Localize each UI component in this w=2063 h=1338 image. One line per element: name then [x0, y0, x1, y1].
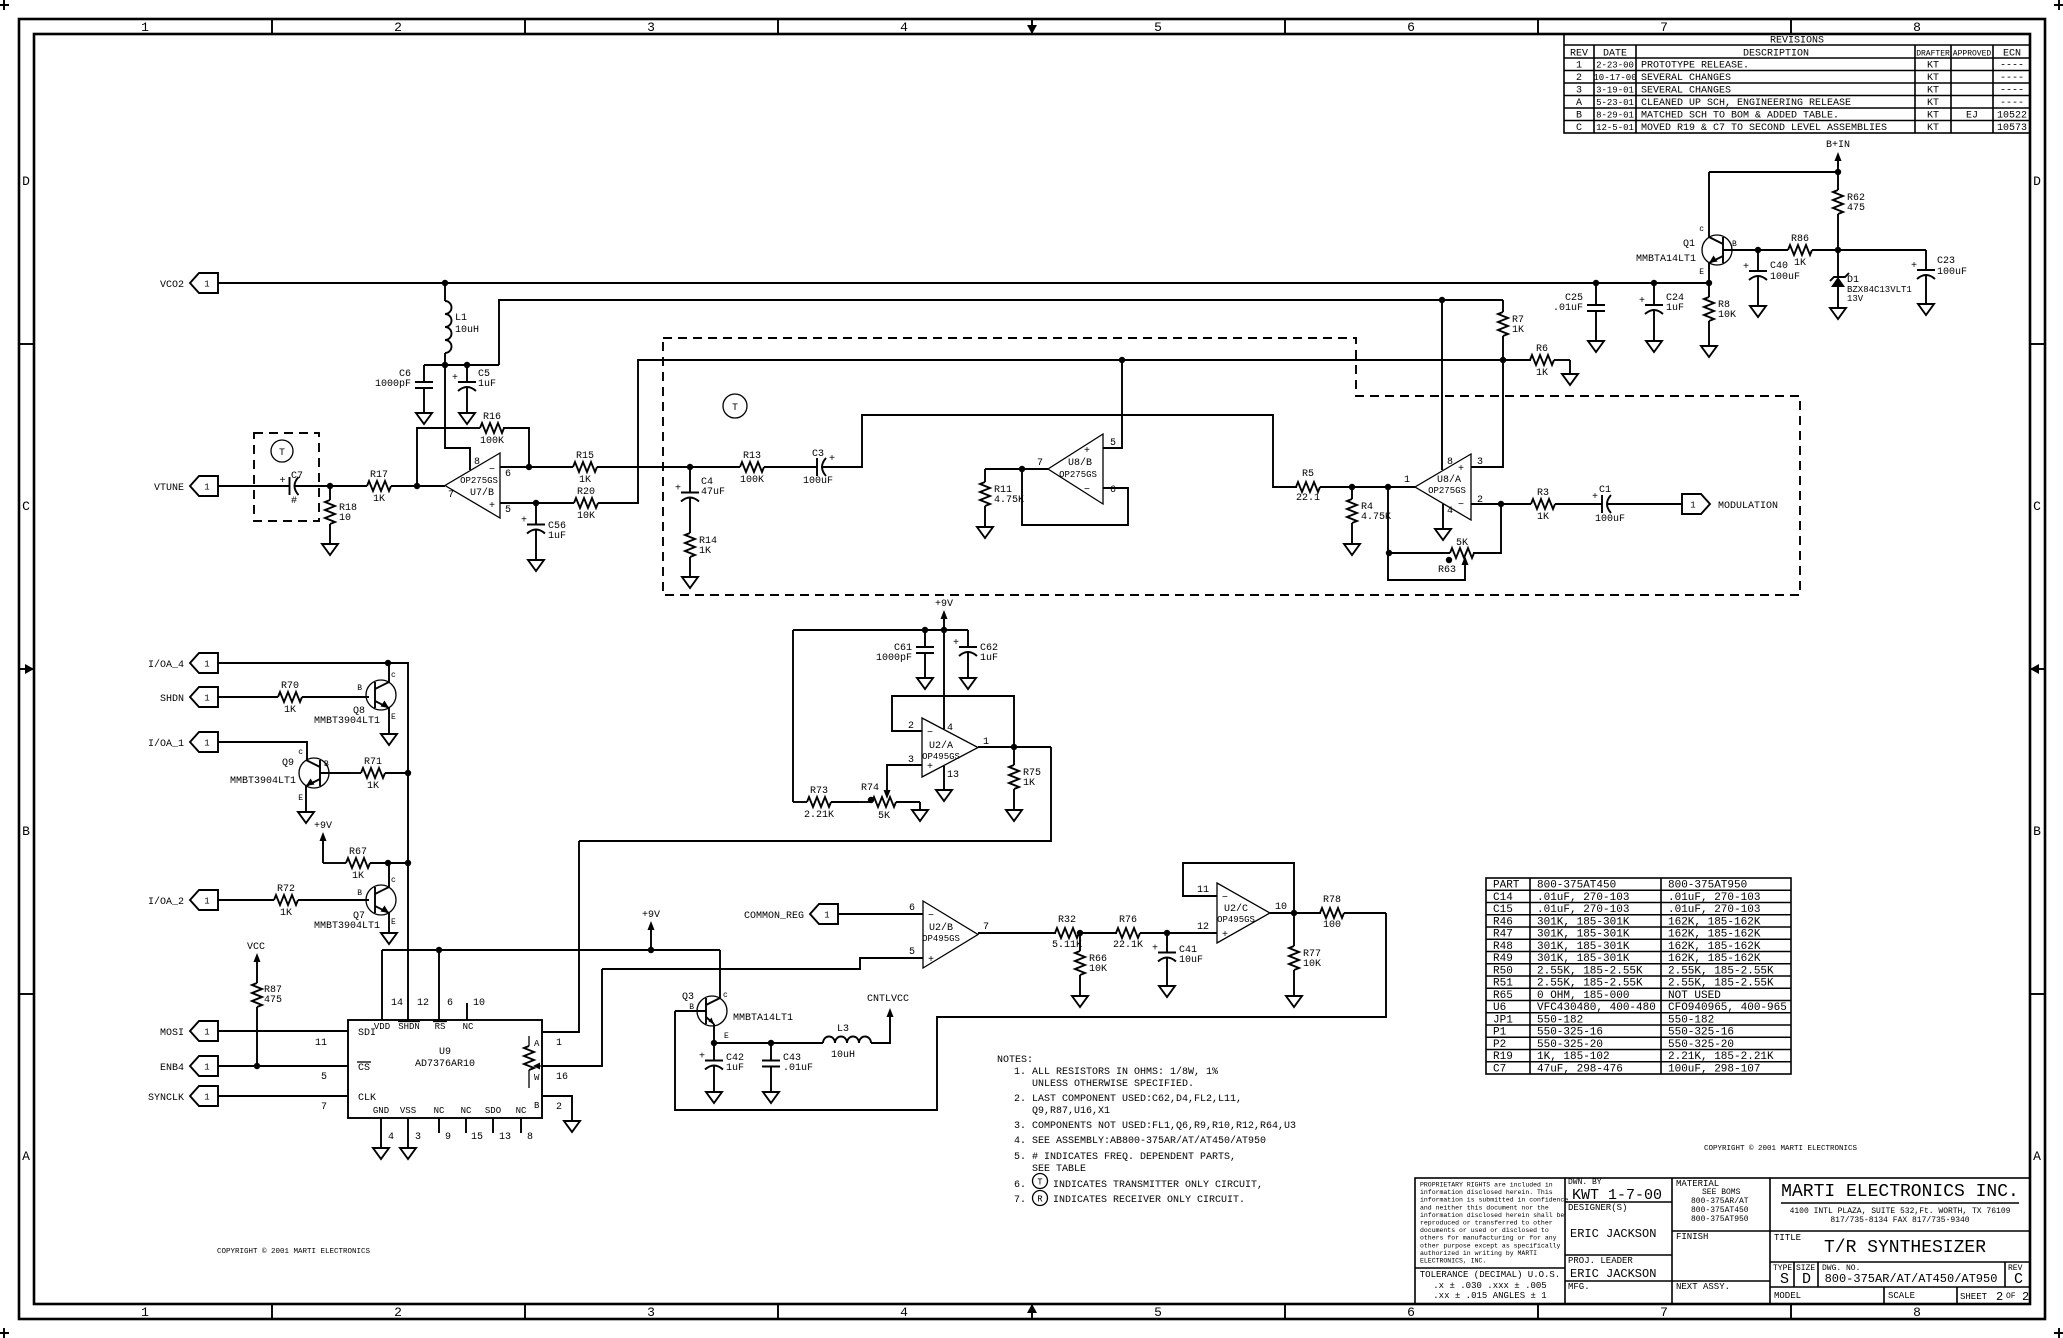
wire Q3 base	[675, 1010, 706, 1012]
svg-text:1: 1	[204, 1063, 209, 1073]
svg-text:GND: GND	[373, 1106, 389, 1116]
svg-text:10K: 10K	[577, 511, 595, 522]
svg-text:6: 6	[447, 998, 453, 1009]
wire U8B pin5	[1103, 360, 1122, 448]
svg-text:2: 2	[394, 20, 402, 35]
svg-text:1uF: 1uF	[478, 379, 496, 390]
resistor R14	[689, 524, 691, 533]
U9 pin1 A wire	[542, 841, 579, 1032]
wire U2A pin2 feedback	[892, 696, 1014, 747]
svg-text:SEVERAL CHANGES: SEVERAL CHANGES	[1641, 73, 1731, 84]
wire R63 wiper loop	[1388, 553, 1465, 580]
wire U2B output	[978, 932, 1056, 934]
svg-text:JP1: JP1	[1493, 1014, 1513, 1026]
svg-text:+: +	[829, 454, 835, 465]
svg-text:+9V: +9V	[642, 910, 660, 921]
svg-text:R51: R51	[1493, 978, 1513, 990]
svg-text:47uF, 298-476: 47uF, 298-476	[1537, 1063, 1623, 1075]
svg-text:1K: 1K	[352, 871, 364, 882]
node R86 right	[1835, 247, 1841, 253]
node C42	[711, 1040, 717, 1046]
svg-text:.01uF, 270-103: .01uF, 270-103	[1668, 904, 1760, 916]
svg-text:D: D	[22, 174, 30, 189]
svg-text:+: +	[699, 1052, 705, 1063]
node C43	[768, 1040, 774, 1046]
svg-text:1uF: 1uF	[548, 531, 566, 542]
svg-text:1: 1	[1576, 61, 1582, 72]
svg-text:R19: R19	[1493, 1051, 1513, 1063]
wire U7B pin6 line	[500, 466, 529, 468]
resistor R18	[329, 486, 331, 500]
svg-text:R5: R5	[1302, 469, 1314, 480]
node R18	[327, 483, 333, 489]
svg-text:MOVED R19 & C7 TO SECOND LEVEL: MOVED R19 & C7 TO SECOND LEVEL ASSEMBLIE…	[1641, 123, 1887, 134]
svg-text:1.: 1.	[1014, 1067, 1026, 1078]
op-amp U8/B	[1048, 434, 1103, 504]
svg-text:+: +	[1084, 446, 1090, 457]
wire U2A output	[978, 746, 1051, 748]
svg-text:B: B	[324, 760, 329, 769]
svg-text:other purpose except as specif: other purpose except as specifically	[1420, 1242, 1561, 1249]
svg-text:D: D	[2033, 174, 2041, 189]
wire Q8 collector	[388, 663, 390, 682]
resistor R71	[350, 772, 361, 774]
svg-text:+: +	[1911, 261, 1917, 272]
svg-text:5: 5	[909, 947, 915, 958]
ground D1	[1830, 300, 1846, 319]
svg-text:REVISIONS: REVISIONS	[1770, 36, 1824, 47]
transistor Q1	[1702, 235, 1732, 265]
svg-text:1: 1	[1404, 475, 1410, 486]
svg-text:12: 12	[417, 998, 429, 1009]
svg-text:PROPRIETARY RIGHTS are include: PROPRIETARY RIGHTS are included in	[1420, 1182, 1553, 1189]
svg-text:OP495GS: OP495GS	[922, 934, 960, 944]
svg-text:+: +	[953, 638, 959, 649]
svg-text:VSS: VSS	[400, 1106, 416, 1116]
wire U7B pin8 supply	[445, 365, 470, 470]
svg-text:W: W	[534, 1073, 540, 1083]
svg-text:10K: 10K	[1718, 310, 1736, 321]
svg-text:4: 4	[388, 1132, 394, 1143]
svg-text:MODEL: MODEL	[1774, 1291, 1801, 1301]
parts table	[1486, 878, 1791, 1074]
wire Q9 base	[320, 772, 350, 774]
svg-text:B+IN: B+IN	[1826, 140, 1850, 151]
ground R77	[1286, 988, 1302, 1007]
svg-text:information is submitted in co: information is submitted in confidence	[1420, 1197, 1568, 1204]
svg-text:1K: 1K	[579, 475, 591, 486]
svg-text:8: 8	[1447, 457, 1453, 468]
svg-text:.01uF, 270-103: .01uF, 270-103	[1668, 892, 1760, 904]
svg-text:1: 1	[204, 1093, 209, 1103]
svg-text:Q9,R87,U16,X1: Q9,R87,U16,X1	[1032, 1106, 1110, 1117]
dashed transmitter-only box (C7)	[254, 433, 319, 521]
svg-text:----: ----	[2000, 98, 2024, 109]
op-amp U7/B	[445, 453, 500, 518]
svg-text:TOLERANCE (DECIMAL) U.O.S.: TOLERANCE (DECIMAL) U.O.S.	[1420, 1270, 1560, 1280]
svg-text:ERIC JACKSON: ERIC JACKSON	[1570, 1267, 1656, 1281]
svg-text:U6: U6	[1493, 1002, 1506, 1014]
svg-text:B: B	[357, 889, 362, 898]
node R63 right top	[1498, 501, 1504, 507]
svg-text:2: 2	[2022, 1290, 2029, 1304]
wire to U8A apex	[1352, 486, 1415, 488]
svg-text:+: +	[675, 484, 681, 495]
svg-text:R70: R70	[281, 681, 299, 692]
svg-text:1: 1	[204, 1028, 209, 1038]
svg-text:475: 475	[1847, 203, 1865, 214]
svg-text:1K: 1K	[1537, 512, 1549, 523]
svg-text:UNLESS OTHERWISE SPECIFIED.: UNLESS OTHERWISE SPECIFIED.	[1032, 1079, 1194, 1090]
svg-text:RS: RS	[435, 1022, 446, 1032]
svg-text:100uF: 100uF	[1595, 514, 1625, 525]
svg-text:5.11K: 5.11K	[1052, 940, 1082, 951]
svg-text:MMBTA14LT1: MMBTA14LT1	[1636, 254, 1696, 265]
svg-text:NOT USED: NOT USED	[1668, 990, 1721, 1002]
wire +9V rail A (U9 VDD)	[382, 949, 720, 951]
svg-text:PROJ. LEADER: PROJ. LEADER	[1568, 1256, 1633, 1266]
resistor R8	[1708, 283, 1710, 297]
wire L3 to CNTLVCC	[871, 1014, 890, 1043]
svg-text:100uF: 100uF	[1770, 272, 1800, 283]
svg-text:4.75K: 4.75K	[994, 495, 1024, 506]
svg-text:ENB4: ENB4	[160, 1063, 184, 1074]
transistor Q8	[366, 680, 396, 710]
svg-text:C23: C23	[1937, 256, 1955, 267]
ground R74	[912, 802, 928, 821]
capacitor C6	[423, 365, 425, 382]
svg-text:CNTLVCC: CNTLVCC	[867, 994, 909, 1005]
svg-text:301K, 185-301K: 301K, 185-301K	[1537, 929, 1630, 941]
svg-text:4: 4	[900, 1305, 908, 1320]
resistor R75	[1013, 747, 1015, 765]
svg-text:C: C	[1576, 123, 1582, 134]
wire R20 up to y360 rail	[610, 360, 1531, 503]
svg-text:NC: NC	[434, 1106, 445, 1116]
svg-text:C40: C40	[1770, 261, 1788, 272]
svg-text:162K, 185-162K: 162K, 185-162K	[1668, 953, 1761, 965]
svg-text:PROTOTYPE RELEASE.: PROTOTYPE RELEASE.	[1641, 61, 1749, 72]
svg-text:14: 14	[391, 998, 403, 1009]
resistor R76	[1116, 928, 1140, 938]
wire Q8 emitter	[388, 708, 390, 726]
svg-text:TITLE: TITLE	[1774, 1233, 1801, 1243]
svg-text:1K: 1K	[1512, 325, 1524, 336]
node L1 top	[442, 280, 448, 286]
svg-text:.01uF: .01uF	[783, 1063, 813, 1074]
svg-text:−: −	[1458, 500, 1464, 511]
svg-text:0 OHM, 185-000: 0 OHM, 185-000	[1537, 990, 1629, 1002]
svg-text:C14: C14	[1493, 892, 1513, 904]
svg-text:c: c	[1699, 225, 1704, 234]
svg-text:8: 8	[474, 457, 480, 468]
svg-text:E: E	[724, 1032, 729, 1041]
resistor R16	[417, 428, 469, 486]
svg-text:800-375AT450: 800-375AT450	[1537, 880, 1616, 892]
wire U2C output	[1270, 912, 1321, 914]
svg-text:550-325-16: 550-325-16	[1668, 1027, 1734, 1039]
resistor R72	[218, 899, 274, 901]
node R67 bus	[405, 860, 411, 866]
svg-text:+: +	[1222, 930, 1228, 941]
svg-text:OP275GS: OP275GS	[1428, 486, 1466, 496]
capacitor C61	[924, 630, 926, 647]
svg-text:13: 13	[947, 770, 959, 781]
svg-text:MMBTA14LT1: MMBTA14LT1	[733, 1013, 793, 1024]
U9 pin2 B wire	[542, 1096, 572, 1113]
transistor Q9	[299, 758, 329, 788]
svg-text:R71: R71	[364, 757, 382, 768]
svg-text:2.55K, 185-2.55K: 2.55K, 185-2.55K	[1537, 978, 1643, 990]
svg-text:KT: KT	[1927, 73, 1939, 84]
svg-text:VTUNE: VTUNE	[154, 483, 184, 494]
svg-text:6.: 6.	[1014, 1180, 1026, 1191]
svg-text:C: C	[2014, 1271, 2023, 1288]
svg-text:OF: OF	[2006, 1292, 2016, 1301]
svg-text:E: E	[1699, 268, 1704, 277]
ground R14	[682, 569, 698, 588]
svg-text:8: 8	[1913, 20, 1921, 35]
svg-text:10uH: 10uH	[455, 325, 479, 336]
node C24	[1651, 280, 1657, 286]
svg-text:C15: C15	[1493, 904, 1513, 916]
wire collector rail	[1709, 171, 1838, 173]
wire +9V rail to R73	[792, 630, 794, 802]
svg-text:----: ----	[2000, 61, 2024, 72]
svg-text:10573: 10573	[1997, 123, 2027, 134]
svg-text:10K: 10K	[1303, 959, 1321, 970]
wire U2A pin4 supply	[943, 630, 945, 729]
svg-text:−: −	[1084, 485, 1090, 496]
diode D1 zener	[1837, 250, 1839, 277]
ground R8	[1701, 338, 1717, 357]
svg-text:162K, 185-162K: 162K, 185-162K	[1668, 929, 1761, 941]
power +9V (R67)	[322, 836, 324, 863]
svg-text:DATE: DATE	[1603, 49, 1627, 60]
wire VTUNE net	[218, 485, 289, 487]
svg-text:7: 7	[1660, 20, 1668, 35]
svg-text:R50: R50	[1493, 965, 1513, 977]
node R8	[1706, 280, 1712, 286]
wire U8B output	[985, 468, 1048, 470]
node C61	[922, 627, 928, 633]
svg-text:U2/C: U2/C	[1224, 903, 1248, 915]
svg-text:REV: REV	[1570, 49, 1588, 60]
op-amp U8/A	[1415, 454, 1471, 520]
svg-text:800-375AR/AT: 800-375AR/AT	[1691, 1197, 1749, 1206]
wire U2C pin11 feedback	[1183, 863, 1294, 913]
svg-text:# INDICATES FREQ. DEPENDENT PA: # INDICATES FREQ. DEPENDENT PARTS,	[1032, 1152, 1236, 1163]
svg-text:+: +	[1458, 464, 1464, 475]
svg-text:R78: R78	[1323, 895, 1341, 906]
svg-text:+: +	[1152, 944, 1158, 955]
svg-text:R48: R48	[1493, 941, 1513, 953]
ground U9 pin2	[564, 1113, 580, 1132]
svg-text:VDD: VDD	[374, 1022, 390, 1032]
node C5	[464, 362, 470, 368]
svg-text:OP275GS: OP275GS	[1059, 470, 1097, 480]
svg-text:COMPONENTS NOT USED:FL1,Q6,R9,: COMPONENTS NOT USED:FL1,Q6,R9,R10,R12,R6…	[1032, 1121, 1296, 1132]
T circle marker (main box)	[723, 394, 747, 418]
svg-text:R65: R65	[1493, 990, 1513, 1002]
svg-text:R13: R13	[743, 451, 761, 462]
svg-text:.01uF, 270-103: .01uF, 270-103	[1537, 904, 1629, 916]
svg-text:1K: 1K	[1023, 778, 1035, 789]
svg-text:B: B	[357, 684, 362, 693]
U9 pin4 GND	[380, 1118, 382, 1140]
node U8B output	[1019, 466, 1025, 472]
svg-text:NEXT ASSY.: NEXT ASSY.	[1676, 1282, 1730, 1292]
ground C42	[706, 1084, 722, 1103]
svg-text:3-19-01: 3-19-01	[1596, 86, 1634, 96]
ground C24	[1646, 333, 1662, 352]
svg-text:1: 1	[204, 483, 209, 493]
svg-text:A: A	[534, 1039, 540, 1049]
wire Q9 emitter	[305, 786, 307, 804]
resistor R70	[218, 696, 278, 698]
svg-text:T: T	[1037, 1178, 1043, 1188]
wire +9V rail C61 C62	[793, 629, 968, 631]
ground U2A pin13	[936, 782, 952, 801]
svg-text:+: +	[1639, 296, 1645, 307]
svg-text:10: 10	[339, 513, 351, 524]
node R71 bus	[405, 770, 411, 776]
transistor Q3	[697, 996, 727, 1026]
svg-text:APPROVED: APPROVED	[1953, 50, 1992, 59]
svg-text:162K, 185-162K: 162K, 185-162K	[1668, 941, 1761, 953]
ground Q7	[381, 925, 397, 944]
svg-text:LAST COMPONENT USED:C62,D4,FL2: LAST COMPONENT USED:C62,D4,FL2,L11,	[1032, 1094, 1242, 1105]
capacitor C7	[269, 485, 290, 487]
svg-text:R72: R72	[277, 884, 295, 895]
svg-text:13: 13	[499, 1132, 511, 1143]
svg-text:SHDN: SHDN	[398, 1022, 420, 1032]
svg-text:U8/A: U8/A	[1437, 474, 1461, 486]
wire to MODULATION tag	[1630, 503, 1682, 505]
wire U2A pin3 wiper	[887, 765, 922, 794]
svg-text:475: 475	[264, 995, 282, 1006]
svg-text:SHEET: SHEET	[1960, 1292, 1988, 1302]
svg-text:550-182: 550-182	[1668, 1014, 1714, 1026]
potentiometer R74	[872, 797, 896, 807]
svg-text:KT: KT	[1927, 86, 1939, 97]
svg-text:SHDN: SHDN	[160, 694, 184, 705]
svg-text:6: 6	[1407, 1305, 1415, 1320]
svg-text:SEE BOMS: SEE BOMS	[1702, 1188, 1741, 1197]
svg-text:KWT 1-7-00: KWT 1-7-00	[1572, 1187, 1662, 1204]
U9 pin9 NC	[438, 1118, 440, 1133]
revisions table	[1564, 34, 2030, 133]
svg-text:5: 5	[1154, 20, 1162, 35]
svg-text:100K: 100K	[480, 436, 504, 447]
svg-text:1: 1	[141, 20, 149, 35]
power B+IN	[1837, 156, 1839, 172]
svg-text:COMMON_REG: COMMON_REG	[744, 911, 804, 922]
node B+IN	[1835, 169, 1841, 175]
svg-text:B: B	[534, 1101, 540, 1111]
wire R63 left to output node	[1387, 487, 1389, 553]
resistor R7	[1502, 300, 1504, 312]
svg-text:100uF: 100uF	[803, 476, 833, 487]
svg-text:800-375AT950: 800-375AT950	[1668, 880, 1747, 892]
svg-text:others for manufacturing or fo: others for manufacturing or for any	[1420, 1235, 1557, 1242]
svg-text:11: 11	[1197, 885, 1209, 896]
wire I/OA_1 to Q9	[218, 742, 307, 760]
svg-text:2: 2	[394, 1305, 402, 1320]
svg-text:+: +	[521, 516, 527, 527]
svg-text:301K, 185-301K: 301K, 185-301K	[1537, 953, 1630, 965]
wire U2B pin5 feed	[602, 958, 923, 969]
U9 pin3 VSS	[407, 1118, 409, 1140]
svg-text:1K, 185-102: 1K, 185-102	[1537, 1051, 1610, 1063]
capacitor C3	[793, 466, 817, 468]
svg-text:A: A	[2033, 1149, 2041, 1164]
svg-text:8-29-01: 8-29-01	[1596, 111, 1634, 121]
wire U2A pin13 gnd	[943, 766, 945, 782]
ground C56	[528, 552, 544, 571]
svg-text:100uF, 298-107: 100uF, 298-107	[1668, 1063, 1760, 1075]
node C62	[941, 627, 947, 633]
svg-text:CLK: CLK	[358, 1093, 376, 1104]
capacitor C4	[689, 467, 691, 493]
svg-text:1000pF: 1000pF	[375, 379, 411, 390]
svg-text:8: 8	[527, 1132, 533, 1143]
T circle marker (C7 box)	[271, 440, 293, 462]
svg-text:C: C	[22, 499, 30, 514]
svg-text:R: R	[1037, 1195, 1043, 1205]
svg-text:EJ: EJ	[1966, 111, 1978, 122]
ground C61	[917, 670, 933, 689]
node C6	[442, 362, 448, 368]
wire Q3 collector	[719, 950, 721, 998]
svg-text:100uF: 100uF	[1937, 267, 1967, 278]
svg-text:1K: 1K	[367, 781, 379, 792]
svg-text:6: 6	[505, 469, 511, 480]
svg-text:+: +	[928, 955, 934, 966]
svg-text:T: T	[732, 403, 738, 414]
svg-text:1K: 1K	[1536, 368, 1548, 379]
svg-text:1uF: 1uF	[726, 1063, 744, 1074]
svg-text:MATCHED SCH TO BOM & ADDED TAB: MATCHED SCH TO BOM & ADDED TABLE.	[1641, 111, 1839, 122]
svg-text:7: 7	[448, 490, 454, 501]
svg-text:2-23-00: 2-23-00	[1596, 61, 1634, 71]
wire to C23	[1838, 249, 1926, 251]
resistor R5	[1296, 482, 1320, 492]
svg-text:800-375AT950: 800-375AT950	[1691, 1215, 1749, 1224]
svg-text:R73: R73	[810, 786, 828, 797]
svg-text:1: 1	[204, 739, 209, 749]
svg-text:5K: 5K	[878, 811, 890, 822]
node U8A pin8 feed	[1439, 297, 1445, 303]
svg-text:2.: 2.	[1014, 1094, 1026, 1105]
svg-text:2: 2	[1576, 73, 1582, 84]
svg-text:−: −	[489, 465, 495, 476]
svg-text:R32: R32	[1058, 915, 1076, 926]
svg-text:3: 3	[415, 1132, 421, 1143]
svg-text:6: 6	[909, 903, 915, 914]
node R63 wiper	[1446, 557, 1452, 563]
U9 pin14 VDD	[381, 950, 383, 1020]
U9 pin13 SDO	[492, 1118, 494, 1133]
svg-text:2.55K, 185-2.55K: 2.55K, 185-2.55K	[1668, 978, 1774, 990]
svg-text:10uF: 10uF	[1179, 955, 1203, 966]
wire ENB4	[218, 1065, 348, 1067]
svg-text:A: A	[1576, 98, 1582, 109]
svg-text:CS: CS	[358, 1063, 370, 1074]
op-amp U2/C	[1217, 883, 1270, 943]
capacitor C23	[1925, 250, 1927, 270]
resistor R87	[252, 983, 262, 1007]
